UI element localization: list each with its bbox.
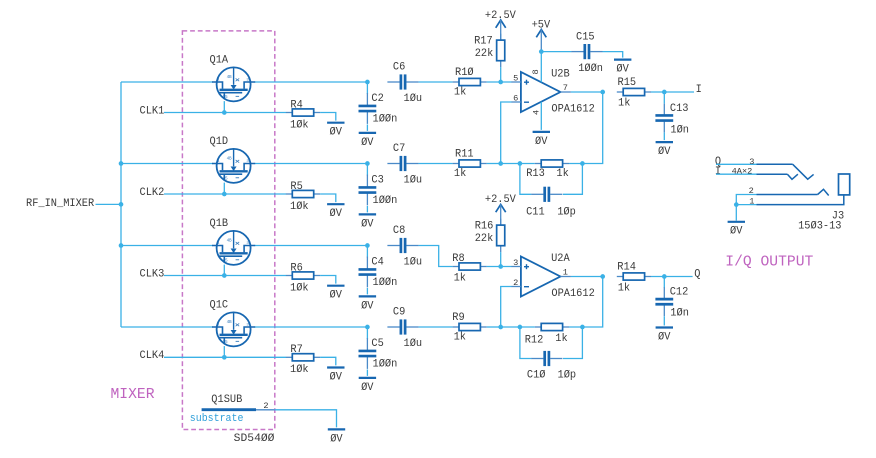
resistor R5 10k — [286, 181, 320, 213]
wire I to jack pin4A — [716, 173, 757, 175]
junction Q1B gate on CLK3 — [222, 273, 227, 278]
svg-text:CLK4: CLK4 — [140, 350, 165, 362]
svg-text:1Øp: 1Øp — [557, 206, 576, 218]
svg-text:R15: R15 — [618, 77, 637, 89]
svg-text:1: 1 — [749, 196, 754, 206]
wire R13 to U2B output — [569, 92, 603, 164]
junction row2 at C3 — [365, 161, 370, 166]
wire jack pin1 to ground — [736, 204, 756, 206]
capacitor C9 10u — [387, 307, 422, 350]
node CLK3 — [140, 268, 165, 280]
label MIXER — [111, 386, 155, 403]
ground 0V at R6 — [327, 286, 344, 302]
wire R9 to feedback node — [487, 326, 501, 328]
wire C6 to R10 — [419, 81, 453, 83]
svg-text:CLK1: CLK1 — [140, 105, 165, 117]
svg-text:5: 5 — [513, 73, 518, 83]
svg-text:I/Q OUTPUT: I/Q OUTPUT — [725, 253, 813, 270]
svg-text:1k: 1k — [454, 332, 466, 344]
junction R9/pin2 node — [498, 325, 503, 330]
resistor R16 22k — [475, 219, 505, 252]
junction row1 at C2 — [365, 80, 370, 85]
wire bus to Q1D source — [121, 163, 213, 165]
wire bus to Q1C source — [121, 326, 213, 328]
junction bus row2 — [119, 161, 124, 166]
wire C7 to R11 — [419, 163, 453, 165]
svg-text:4A×2: 4A×2 — [732, 166, 753, 176]
transistor Q1SUB substrate pin SD5400 — [190, 394, 275, 445]
svg-text:R13: R13 — [526, 168, 545, 180]
wire jack pin2 to ground — [736, 195, 756, 221]
svg-text:4: 4 — [532, 110, 542, 115]
capacitor C3 100n — [359, 164, 398, 208]
svg-text:3: 3 — [749, 157, 754, 167]
junction Q1D gate on CLK2 — [222, 192, 227, 197]
svg-text:R17: R17 — [474, 35, 493, 47]
connector J3 1503-13 — [732, 157, 850, 233]
wire +5V to U2B pin8 — [540, 52, 542, 62]
capacitor C13 10n — [655, 92, 689, 137]
junction U2B pin5 node — [498, 80, 503, 85]
svg-text:C13: C13 — [670, 103, 689, 115]
wire R11 to feedback node — [487, 163, 501, 165]
ground 0V at U2B pin4 — [533, 132, 550, 148]
transistor Q1A — [210, 54, 256, 101]
svg-text:1Øu: 1Øu — [404, 256, 423, 268]
svg-text:6: 6 — [513, 93, 518, 103]
wire R12 to U2A output — [569, 277, 603, 328]
ground 0V at R4 — [327, 123, 344, 139]
resistor R8 1k — [452, 253, 487, 284]
svg-text:Q: Q — [694, 268, 700, 280]
junction jack pin1-pin2 — [734, 202, 739, 207]
resistor R12 1k — [525, 323, 569, 346]
svg-text:8: 8 — [531, 69, 541, 74]
svg-text:R16: R16 — [475, 220, 494, 232]
wire U2B out — [571, 91, 603, 93]
svg-text:1Øu: 1Øu — [404, 174, 423, 186]
svg-text:RF_IN_MIXER: RF_IN_MIXER — [26, 198, 95, 210]
label I/Q OUTPUT — [725, 253, 813, 270]
junction bus row3 — [119, 243, 124, 248]
svg-text:1k: 1k — [454, 272, 466, 284]
wire Q to jack pin3 — [716, 163, 757, 165]
junction R13-C11 right — [580, 161, 585, 166]
wire CLK2 to R5 — [164, 193, 286, 195]
svg-text:Q1B: Q1B — [210, 218, 229, 230]
wire Q1C drain to C junction — [255, 326, 368, 328]
svg-text:R9: R9 — [452, 312, 464, 324]
wire U2A out — [571, 276, 603, 278]
wire bus to Q1B source — [121, 245, 213, 247]
ground 0V at R5 — [327, 204, 344, 220]
svg-text:R7: R7 — [290, 344, 302, 356]
op-amp U2A OPA1612 — [511, 253, 594, 300]
wire C9 to R9 — [419, 326, 453, 328]
node I to jack pin4A — [715, 166, 721, 178]
svg-text:1ØØn: 1ØØn — [373, 277, 398, 289]
wire bus to Q1A source — [121, 81, 213, 83]
ground 0V at C5 — [359, 378, 376, 394]
svg-text:C6: C6 — [393, 62, 405, 74]
svg-text:R4: R4 — [290, 99, 302, 111]
wire R7 to ground — [320, 357, 336, 365]
svg-text:1Øu: 1Øu — [404, 338, 423, 350]
capacitor C5 100n — [359, 327, 398, 371]
svg-text:2: 2 — [513, 278, 518, 288]
wire Q1B gate down — [223, 265, 225, 276]
transistor Q1B — [210, 218, 256, 265]
svg-text:CLK2: CLK2 — [140, 187, 165, 199]
junction Q1A gate on CLK1 — [222, 110, 227, 115]
junction U2A pin3 node — [498, 264, 503, 269]
svg-text:ØV: ØV — [361, 137, 374, 149]
wire R15 to I output — [651, 91, 694, 93]
junction R12-C10 left — [518, 325, 523, 330]
wire C12 to ground — [663, 316, 665, 325]
ground 0V at C12 — [656, 328, 673, 344]
transistor Q1D — [210, 136, 256, 183]
svg-text:Q1A: Q1A — [210, 54, 229, 66]
svg-text:1ØØn: 1ØØn — [373, 195, 398, 207]
svg-text:1Øu: 1Øu — [404, 93, 423, 105]
svg-text:U2B: U2B — [551, 68, 570, 80]
svg-text:1ØØn: 1ØØn — [373, 114, 398, 126]
wire RF_IN_MIXER to bus — [96, 203, 122, 205]
wire CLK1 to R4 — [164, 112, 286, 114]
resistor R6 10k — [286, 262, 320, 294]
capacitor C6 10u — [387, 62, 422, 105]
resistor R7 10k — [286, 344, 320, 376]
ground 0V at C4 — [359, 296, 376, 312]
svg-text:ØV: ØV — [658, 146, 671, 158]
svg-text:C4: C4 — [371, 256, 383, 268]
resistor R15 1k — [617, 77, 651, 110]
junction U2B output node — [600, 90, 605, 95]
svg-text:ØV: ØV — [361, 382, 374, 394]
svg-text:22k: 22k — [475, 48, 494, 60]
wire +5V to C15 — [541, 51, 571, 53]
svg-text:ØV: ØV — [330, 433, 343, 445]
capacitor C11 10p — [520, 164, 583, 219]
svg-text:C11: C11 — [526, 206, 545, 218]
svg-text:ØV: ØV — [330, 290, 343, 302]
resistor R17 22k — [474, 34, 505, 67]
svg-text:C15: C15 — [576, 32, 595, 44]
svg-text:substrate: substrate — [190, 413, 244, 425]
svg-text:1Øp: 1Øp — [558, 370, 577, 382]
wire RF bus vertical — [120, 82, 122, 327]
wire Q1C gate down — [223, 346, 225, 357]
wire U2A pin2 to feedback — [501, 287, 512, 328]
svg-text:2: 2 — [749, 186, 754, 196]
wire Q1A drain to C junction — [255, 81, 368, 83]
capacitor C10 10p — [520, 327, 583, 382]
junction Q output at C12 — [662, 274, 667, 279]
wire R6 to ground — [320, 276, 336, 284]
svg-text:1ØØn: 1ØØn — [578, 63, 603, 75]
capacitor C8 10u — [387, 225, 422, 268]
wire R14 to Q output — [651, 276, 693, 278]
svg-text:1k: 1k — [556, 168, 568, 180]
svg-text:ØV: ØV — [330, 371, 343, 383]
wire R4 to ground — [320, 113, 336, 121]
svg-text:1k: 1k — [454, 168, 466, 180]
svg-text:1Øk: 1Øk — [290, 201, 309, 213]
svg-text:ØV: ØV — [658, 331, 671, 343]
op-amp U2B OPA1612 — [511, 62, 594, 123]
svg-text:1k: 1k — [454, 87, 466, 99]
svg-text:C8: C8 — [393, 225, 405, 237]
svg-text:1Øn: 1Øn — [670, 125, 689, 137]
svg-text:I: I — [696, 84, 702, 96]
node CLK1 — [140, 105, 165, 117]
wire C3 to ground — [366, 206, 368, 212]
junction row4 at C5 — [365, 325, 370, 330]
node CLK4 — [140, 350, 165, 362]
wire Q1D drain to C junction — [255, 163, 368, 165]
svg-text:R1Ø: R1Ø — [455, 67, 474, 79]
svg-text:U2A: U2A — [551, 253, 570, 265]
capacitor C2 100n — [359, 82, 398, 126]
ground 0V at substrate — [328, 429, 345, 445]
ground 0V at R7 — [327, 368, 344, 384]
wire R17 to pin5 node — [500, 67, 502, 82]
svg-text:I: I — [715, 166, 721, 178]
junction R13-C11 left — [518, 161, 523, 166]
wire C15 to ground — [603, 52, 623, 58]
svg-text:C2: C2 — [371, 93, 383, 105]
svg-text:7: 7 — [563, 83, 568, 93]
junction +5V node — [539, 49, 544, 54]
svg-text:Q1SUB: Q1SUB — [211, 394, 242, 406]
svg-text:1Øk: 1Øk — [290, 282, 309, 294]
capacitor C4 100n — [359, 246, 398, 290]
junction R11/pin6 node — [498, 161, 503, 166]
wire U2B pin6 to feedback — [501, 102, 512, 164]
wire R5 to ground — [320, 194, 336, 202]
wire feedback to R12 — [501, 326, 535, 328]
junction R12-C10 right — [580, 325, 585, 330]
svg-text:Q1C: Q1C — [210, 299, 229, 311]
svg-text:OPA1612: OPA1612 — [551, 288, 594, 300]
wire CLK4 to R7 — [164, 356, 286, 358]
ground 0V at C15 — [614, 60, 631, 76]
svg-text:R14: R14 — [617, 262, 636, 274]
svg-text:C7: C7 — [393, 143, 405, 155]
wire R16 to pin3 node — [500, 252, 502, 266]
svg-text:ØV: ØV — [616, 64, 629, 76]
junction U2A output node — [600, 274, 605, 279]
node I output — [696, 84, 702, 96]
svg-text:3: 3 — [513, 258, 518, 268]
wire U2B pin4 to ground — [540, 123, 542, 130]
svg-text:MIXER: MIXER — [111, 386, 155, 403]
wire Q1A gate down — [223, 101, 225, 112]
junction I output at C13 — [662, 90, 667, 95]
svg-text:ØV: ØV — [535, 136, 548, 148]
wire feedback to R13 — [501, 163, 535, 165]
ground 0V at J3 — [728, 222, 745, 238]
resistor R13 1k — [526, 160, 569, 180]
wire C5 to ground — [366, 370, 368, 376]
capacitor C12 10n — [655, 277, 688, 320]
wire Q1D gate down — [223, 183, 225, 194]
junction Q1C gate on CLK4 — [222, 355, 227, 360]
node RF_IN_MIXER — [26, 198, 95, 210]
svg-text:C9: C9 — [393, 307, 405, 319]
wire R8 to U2A pin3 — [487, 266, 512, 268]
svg-text:1: 1 — [563, 268, 568, 278]
capacitor C7 10u — [387, 143, 422, 186]
svg-text:R12: R12 — [525, 334, 544, 346]
svg-text:Q1D: Q1D — [210, 136, 229, 148]
ground 0V at C3 — [359, 214, 376, 230]
resistor R4 10k — [286, 99, 320, 131]
ground 0V at C2 — [359, 133, 376, 149]
wire C4 to ground — [366, 288, 368, 294]
wire substrate to ground — [274, 410, 336, 428]
svg-text:ØV: ØV — [361, 300, 374, 312]
svg-text:CLK3: CLK3 — [140, 268, 165, 280]
svg-text:ØV: ØV — [730, 226, 743, 238]
wire CLK3 to R6 — [164, 275, 286, 277]
node CLK2 — [140, 187, 165, 199]
svg-text:OPA1612: OPA1612 — [551, 103, 594, 115]
resistor R10 1k — [453, 67, 487, 98]
svg-text:15Ø3-13: 15Ø3-13 — [798, 221, 841, 233]
svg-text:R5: R5 — [290, 181, 302, 193]
capacitor C15 100n — [571, 32, 603, 75]
ground 0V at C13 — [656, 142, 673, 158]
svg-text:C12: C12 — [670, 287, 689, 299]
resistor R11 1k — [453, 149, 487, 180]
power +2.5V for R16 — [485, 194, 517, 225]
resistor R14 1k — [617, 262, 651, 295]
wire Q1B drain to C junction — [255, 245, 368, 247]
wire R10 to U2B pin5 — [487, 81, 512, 83]
svg-text:ØV: ØV — [330, 208, 343, 220]
resistor R9 1k — [452, 312, 487, 344]
svg-text:1Øn: 1Øn — [670, 308, 689, 320]
wire C2 to ground — [366, 125, 368, 131]
svg-text:R6: R6 — [290, 262, 302, 274]
power +2.5V for R17 — [485, 10, 517, 40]
node Q output — [694, 268, 700, 280]
svg-text:C1Ø: C1Ø — [527, 370, 546, 382]
svg-text:1Øk: 1Øk — [290, 364, 309, 376]
mixer sheet box — [182, 31, 274, 430]
svg-text:R8: R8 — [452, 253, 464, 265]
svg-text:SD54ØØ: SD54ØØ — [234, 433, 275, 445]
svg-text:ØV: ØV — [361, 218, 374, 230]
transistor Q1C — [210, 299, 256, 346]
junction row3 at C4 — [365, 243, 370, 248]
svg-text:1k: 1k — [555, 333, 567, 345]
node Q to jack pin3 — [715, 156, 721, 168]
svg-text:1Øk: 1Øk — [290, 119, 309, 131]
svg-text:R11: R11 — [455, 149, 474, 161]
wire Q1SUB pin lead — [256, 409, 274, 411]
svg-text:1ØØn: 1ØØn — [373, 359, 398, 371]
svg-text:C3: C3 — [371, 174, 383, 186]
svg-text:C5: C5 — [371, 338, 383, 350]
power +5V — [532, 19, 551, 51]
svg-text:ØV: ØV — [330, 127, 343, 139]
junction RF input on bus — [119, 202, 124, 207]
wire C13 to ground — [663, 133, 665, 141]
wire C8 jog to R8 — [419, 246, 453, 267]
svg-text:1k: 1k — [618, 98, 630, 110]
svg-text:22k: 22k — [475, 233, 494, 245]
svg-text:1k: 1k — [618, 282, 630, 294]
